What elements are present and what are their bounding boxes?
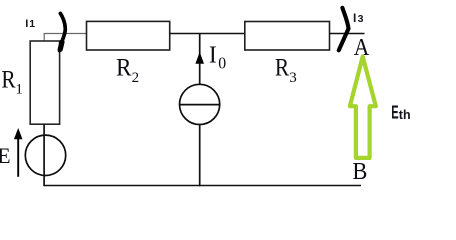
svg-text:3: 3 (289, 70, 297, 86)
svg-text:R: R (1, 67, 15, 94)
wire: R3 right to node A terminal (330, 33, 365, 35)
svg-text:I: I (353, 11, 356, 25)
resistor R2 (87, 21, 170, 50)
wire: R1 top to R2 left (44, 33, 87, 35)
wire: R1 bottom through source E to bottom rail (43, 124, 45, 186)
arrowhead I0 (pointing up) (195, 52, 204, 64)
svg-text:0: 0 (218, 53, 226, 72)
resistor R3 (245, 22, 330, 51)
svg-text:I: I (209, 42, 217, 68)
svg-text:E: E (391, 101, 398, 122)
svg-text:1: 1 (29, 18, 35, 30)
current source bar (180, 104, 220, 106)
bottom rail wire (44, 185, 361, 187)
wire: current source bottom to bottom rail (199, 124, 201, 186)
svg-text:R: R (116, 55, 132, 82)
voltage source E circle (25, 135, 65, 175)
svg-text:2: 2 (132, 70, 140, 86)
svg-text:3: 3 (358, 13, 364, 25)
svg-text:1: 1 (15, 82, 23, 98)
wire: R2 right to R3 left (170, 33, 245, 35)
current tick mark (squiggle) over wire near R1 (60, 13, 66, 50)
wire: R1 top step vertical (43, 34, 45, 42)
resistor R1 (30, 41, 59, 124)
svg-text:B: B (352, 158, 367, 185)
svg-text:th: th (399, 107, 411, 122)
arrowhead E (14, 128, 23, 139)
arrow E (pointing up) (17, 137, 19, 177)
svg-text:I: I (25, 18, 28, 30)
wire: junction down to current source (199, 34, 201, 85)
Thevenin arrow Eth (green block arrow) (350, 57, 376, 158)
svg-text:R: R (275, 54, 289, 81)
svg-text:E: E (0, 143, 11, 168)
current source circle (180, 84, 220, 124)
current tick mark (squiggle) near I3 (339, 8, 349, 50)
